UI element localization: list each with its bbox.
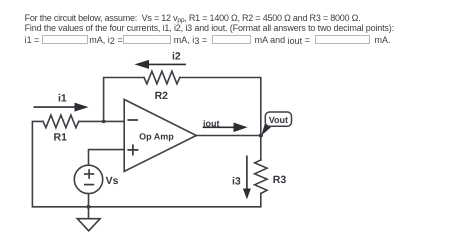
svg-text:R1: R1 <box>54 132 68 144</box>
input box i3 <box>212 35 251 44</box>
current arrow iout <box>203 126 234 128</box>
wire: left loop (R1 leads, left vertical, bottom rail) <box>32 121 260 206</box>
op-amp U1 <box>124 99 196 171</box>
node: output junction <box>259 133 263 137</box>
resistor R2 <box>144 71 180 84</box>
Vs minus sign <box>84 184 94 186</box>
svg-text:Vs: Vs <box>106 175 119 187</box>
wire: top feedback rail <box>104 78 144 122</box>
input box iout <box>315 35 370 44</box>
wire: output node down to R3 <box>260 136 262 161</box>
node: inverting input junction <box>102 120 106 124</box>
wire: non-inverting input from Vs <box>89 150 125 166</box>
resistor R1 <box>43 115 79 128</box>
input box i2 <box>123 35 171 44</box>
Vout callout bubble <box>261 122 272 136</box>
svg-text:R3: R3 <box>273 174 287 186</box>
problem text line 1 <box>25 14 361 24</box>
svg-text:i2: i2 <box>172 50 181 62</box>
wire: R1 to inverting input <box>79 120 124 122</box>
problem text line 2 <box>25 24 394 33</box>
voltage source Vs <box>74 165 102 193</box>
current arrow i1 <box>34 106 76 108</box>
svg-text:Op Amp: Op Amp <box>139 131 174 141</box>
wire: op-amp output to node <box>196 135 260 137</box>
svg-text:Vout: Vout <box>269 115 288 125</box>
svg-text:i1: i1 <box>58 92 67 104</box>
answer row labels <box>25 36 40 45</box>
node: ground junction <box>87 205 91 209</box>
input box i1 <box>42 35 88 44</box>
current arrow i2 <box>149 63 187 65</box>
ground <box>88 207 90 219</box>
svg-text:i3: i3 <box>232 175 241 187</box>
svg-text:R2: R2 <box>155 90 169 102</box>
Vs plus sign <box>84 173 94 175</box>
wire: Vs bottom lead <box>88 193 90 206</box>
resistor R3 <box>255 160 267 194</box>
current arrow i3 <box>246 156 248 190</box>
op-amp minus sign <box>127 119 138 121</box>
wire: top rail right + right drop to output node <box>180 78 261 136</box>
op-amp plus sign <box>127 149 138 151</box>
svg-text:iout: iout <box>203 118 220 128</box>
